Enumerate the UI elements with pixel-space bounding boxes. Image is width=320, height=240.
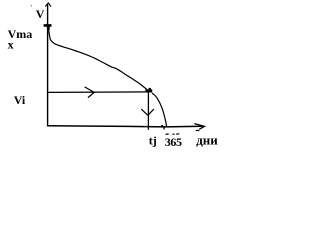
- tick near 365: [161, 125, 163, 126]
- svg-text:365: 365: [165, 135, 182, 149]
- svg-text:x: x: [8, 37, 14, 51]
- Vmax tick on y-axis: [44, 24, 52, 27]
- discharge curve: [48, 27, 147, 91]
- tj vertical line: [147, 92, 149, 129]
- Vi line right arrowhead (mid): [85, 87, 95, 98]
- x-axis: [47, 126, 203, 127]
- svg-text:V: V: [36, 7, 45, 21]
- marker at curve/Vi intersection: [145, 89, 152, 92]
- stray dot: [31, 5, 32, 6]
- dashes above 365: [166, 133, 180, 136]
- svg-text:Vi: Vi: [14, 93, 26, 107]
- tj line downward arrowhead: [141, 109, 154, 115]
- svg-text:дни: дни: [196, 132, 218, 147]
- svg-text:tj: tj: [149, 134, 157, 148]
- curve after Vi crossing: [152, 93, 167, 127]
- x-axis arrowhead: [194, 124, 204, 131]
- y-axis: [47, 5, 49, 127]
- y-axis arrowhead: [45, 3, 51, 7]
- Vi horizontal line: [48, 91, 147, 94]
